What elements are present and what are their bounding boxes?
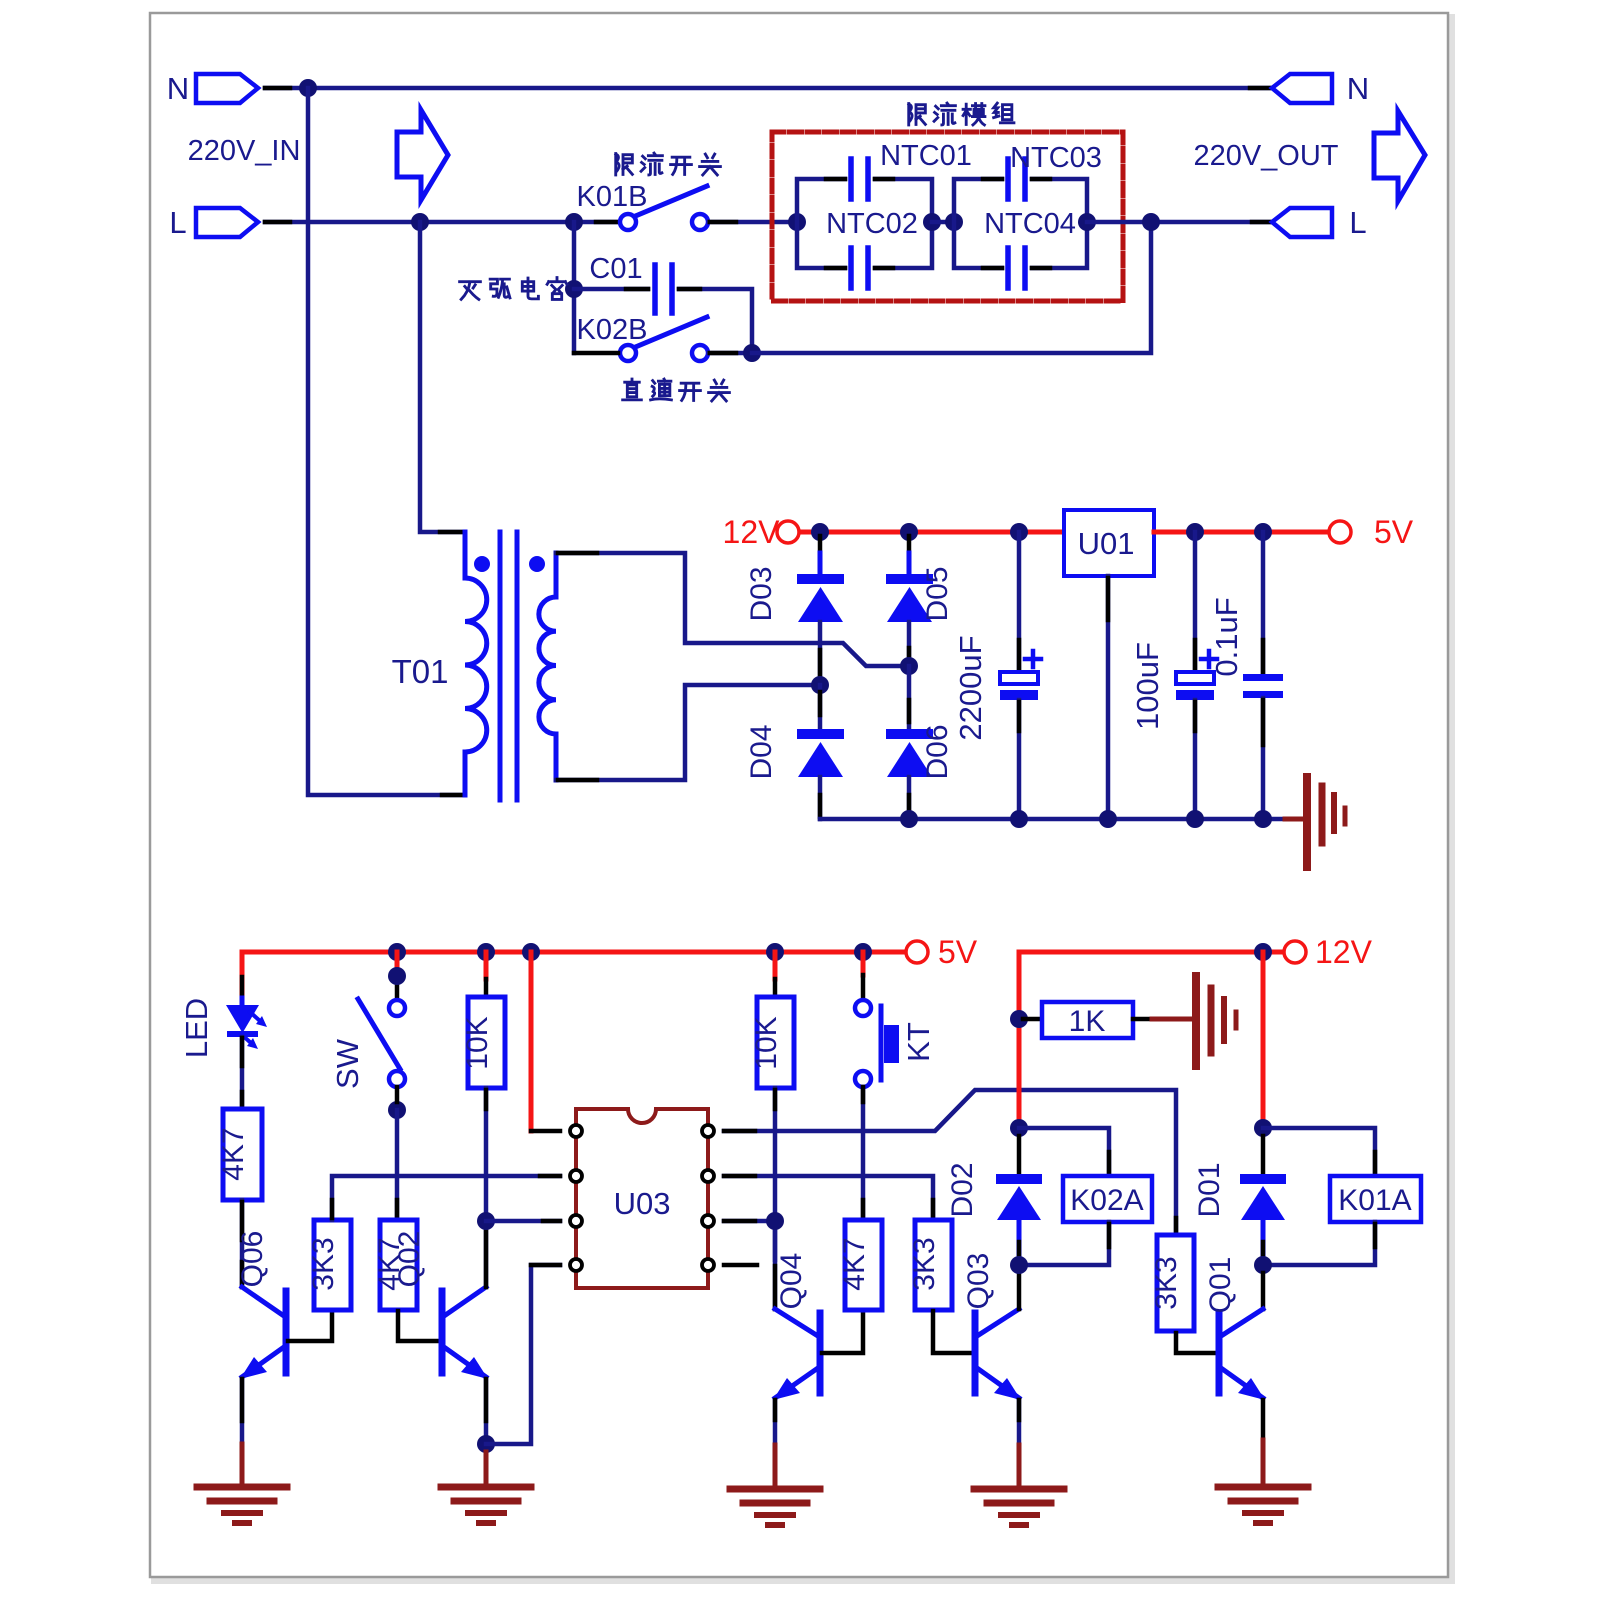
node 1K junction bbox=[1010, 1010, 1028, 1028]
wire C01 right lead to bypass net bbox=[679, 289, 752, 353]
ground symbol Q04 bbox=[730, 1489, 820, 1525]
svg-text:K02B: K02B bbox=[577, 314, 648, 346]
transformer T01 primary winding bbox=[465, 532, 487, 795]
wire pin L3 stub bbox=[486, 1219, 560, 1224]
label 限流开关 bbox=[616, 153, 721, 175]
svg-text:NTC02: NTC02 bbox=[826, 208, 918, 240]
capacitor C01 bbox=[655, 265, 672, 313]
diode D06 bbox=[886, 666, 933, 819]
pin U03 L2 bbox=[570, 1170, 582, 1182]
wire 10K(Q04) feed bbox=[773, 952, 778, 997]
wire KT feed bbox=[861, 952, 866, 1000]
transformer T01 core bbox=[500, 532, 517, 800]
wire K02B left lead bbox=[574, 351, 618, 356]
wire SW to 4K7 bbox=[395, 1087, 400, 1220]
svg-text:N: N bbox=[167, 71, 189, 106]
svg-text:12V: 12V bbox=[1315, 934, 1373, 970]
connector L out bbox=[1272, 208, 1332, 237]
wire group link bbox=[932, 220, 954, 225]
diode D02 bbox=[996, 1136, 1042, 1265]
ground symbol 1K bbox=[1196, 976, 1236, 1066]
resistor 4K7 (LED) bbox=[223, 1109, 262, 1200]
wire 5V rail middle bbox=[1154, 530, 1329, 535]
node gnd C100 bbox=[1186, 810, 1204, 828]
capacitor NTC04 bbox=[1008, 248, 1025, 288]
node NTC group1 left bbox=[788, 213, 806, 231]
wire Q01 emitter to ground bbox=[1261, 1400, 1266, 1487]
capacitor 100uF bbox=[1176, 532, 1217, 819]
diode D04 bbox=[797, 685, 844, 819]
svg-text:4K7: 4K7 bbox=[838, 1237, 871, 1290]
wire Q03 base bbox=[933, 1311, 973, 1353]
svg-text:1K: 1K bbox=[1069, 1005, 1106, 1038]
node U03 power rail junction bbox=[522, 943, 540, 961]
ground symbol middle bbox=[1285, 777, 1345, 867]
pin U03 R4 bbox=[702, 1259, 714, 1271]
wire emitter node to pin L4 bbox=[486, 1265, 560, 1444]
svg-text:10K: 10K bbox=[750, 1016, 783, 1069]
terminal 12V circle bbox=[777, 521, 799, 543]
node bridge mid left bbox=[811, 676, 829, 694]
wire 5V drop to U03 pin L1 bbox=[531, 952, 560, 1131]
wire 12V rail middle bbox=[799, 530, 1064, 535]
svg-text:2200uF: 2200uF bbox=[953, 635, 988, 740]
node L out junction bbox=[1142, 213, 1160, 231]
resistor 1K bbox=[1023, 1002, 1196, 1038]
svg-text:LED: LED bbox=[179, 998, 214, 1058]
label 限流模组 bbox=[909, 103, 1014, 125]
svg-text:3K3: 3K3 bbox=[1150, 1256, 1183, 1309]
wire 12V rail bottom bbox=[1019, 950, 1284, 955]
wire secondary bottom to bridge bbox=[556, 685, 820, 780]
svg-text:Q02: Q02 bbox=[393, 1231, 426, 1288]
wire SW feed bbox=[395, 952, 400, 999]
pin U03 L4 bbox=[570, 1259, 582, 1271]
svg-text:3K3: 3K3 bbox=[908, 1237, 941, 1290]
transformer T01 primary polarity dot bbox=[474, 556, 490, 572]
wire Q06 emitter to ground bbox=[240, 1379, 245, 1487]
capacitor 2200uF bbox=[1000, 532, 1041, 819]
node bridge mid right bbox=[900, 657, 918, 675]
node Q02 emitter junction bbox=[477, 1435, 495, 1453]
relay coil K02A bbox=[1019, 1128, 1152, 1265]
wire L to transformer primary top bbox=[420, 222, 464, 532]
node SW upper dot bbox=[388, 967, 406, 985]
IC U03 body bbox=[576, 1109, 708, 1288]
svg-text:4K7: 4K7 bbox=[217, 1127, 250, 1180]
svg-text:12V: 12V bbox=[723, 514, 781, 550]
wire pin R4 stub bbox=[724, 1263, 757, 1268]
svg-text:T01: T01 bbox=[392, 653, 449, 690]
capacitor 0.1uF bbox=[1243, 532, 1283, 819]
node SW lower dot bbox=[388, 1101, 406, 1119]
svg-text:L: L bbox=[169, 205, 186, 240]
wire 10K to Q02 collector bbox=[484, 1088, 489, 1287]
wire C01 left lead bbox=[574, 287, 648, 292]
svg-text:K02A: K02A bbox=[1070, 1184, 1143, 1217]
svg-text:0.1uF: 0.1uF bbox=[1209, 597, 1244, 676]
node D01 top junction bbox=[1254, 1119, 1272, 1137]
node 10K(Q04) rail junction bbox=[766, 943, 784, 961]
transistor Q01 bbox=[1219, 1309, 1265, 1400]
svg-text:U01: U01 bbox=[1078, 526, 1135, 561]
node rail C2200 bbox=[1010, 523, 1028, 541]
wire LED feed bbox=[240, 952, 245, 998]
wire Q03 collector bbox=[1017, 1273, 1022, 1309]
wire 3K3 top to U03 pin L2 bbox=[332, 1176, 560, 1220]
svg-text:U03: U03 bbox=[614, 1186, 671, 1221]
node D02 top junction bbox=[1010, 1119, 1028, 1137]
wire secondary top to bridge bbox=[556, 553, 909, 666]
wire Q03 emitter to ground bbox=[1017, 1400, 1022, 1489]
label 灭弧电容 bbox=[460, 278, 567, 300]
svg-text:C01: C01 bbox=[589, 253, 642, 285]
connector L in bbox=[196, 208, 258, 237]
flow arrow right bbox=[1374, 111, 1425, 201]
node 12V right rail junction bbox=[1254, 943, 1272, 961]
ground symbol Q01 bbox=[1218, 1487, 1308, 1523]
terminal 12V circle bottom bbox=[1284, 941, 1306, 963]
wire pin R3 stub bbox=[724, 1219, 775, 1224]
svg-text:220V_OUT: 220V_OUT bbox=[1193, 140, 1338, 172]
current limit module dashed box bbox=[772, 132, 1123, 301]
wire branch down from L bbox=[572, 222, 577, 353]
wire N bus bbox=[265, 86, 1274, 91]
pin U03 L1 bbox=[570, 1125, 582, 1137]
node rail C01u bbox=[1254, 523, 1272, 541]
capacitor NTC03 bbox=[1008, 159, 1025, 199]
node NTC group1 right bbox=[923, 213, 941, 231]
diode D05 bbox=[886, 536, 933, 666]
node Q02 collector / pin L3 bbox=[477, 1212, 495, 1230]
transistor Q04 bbox=[773, 1309, 820, 1400]
node 10K rail junction bbox=[477, 943, 495, 961]
svg-text:SW: SW bbox=[330, 1038, 365, 1089]
svg-text:3K3: 3K3 bbox=[307, 1237, 340, 1290]
pushbutton KT bbox=[855, 1000, 899, 1087]
wire Q04 base bbox=[822, 1311, 863, 1353]
svg-text:D03: D03 bbox=[745, 566, 778, 621]
node gnd U01 bbox=[1099, 810, 1117, 828]
LED diode bbox=[226, 998, 267, 1109]
svg-text:KT: KT bbox=[901, 1022, 936, 1062]
node D02 bottom junction bbox=[1010, 1256, 1028, 1274]
svg-text:L: L bbox=[1349, 205, 1366, 240]
wire Q04 emitter to ground bbox=[773, 1400, 778, 1489]
svg-text:D05: D05 bbox=[921, 566, 954, 621]
switch K01B bbox=[620, 186, 708, 230]
wire 12V drop to D01/K01A bbox=[1261, 952, 1266, 1128]
switch SW bbox=[358, 999, 405, 1087]
wire L out bbox=[1087, 220, 1274, 225]
wire L bus left bbox=[265, 220, 618, 225]
svg-text:NTC03: NTC03 bbox=[1010, 142, 1102, 174]
node gnd C2200 bbox=[1010, 810, 1028, 828]
wire 4K7 to Q06 collector bbox=[240, 1200, 245, 1287]
svg-text:220V_IN: 220V_IN bbox=[188, 135, 301, 167]
wire bypass to L out bbox=[752, 222, 1151, 353]
pin U03 R1 bbox=[702, 1125, 714, 1137]
label 直通开关 bbox=[623, 379, 730, 401]
resistor 10K (Q04) bbox=[757, 997, 794, 1088]
switch K02B bbox=[620, 317, 708, 361]
svg-text:D06: D06 bbox=[921, 724, 954, 779]
pin U03 R2 bbox=[702, 1170, 714, 1182]
svg-text:5V: 5V bbox=[938, 934, 978, 970]
svg-text:NTC04: NTC04 bbox=[984, 208, 1076, 240]
node Q04 collector / pin R3 bbox=[766, 1212, 784, 1230]
wire KT to 4K7(Q04) bbox=[861, 1087, 866, 1220]
svg-text:N: N bbox=[1347, 71, 1369, 106]
node SW rail junction bbox=[388, 943, 406, 961]
wire Q06 base bbox=[288, 1311, 332, 1341]
node rail D05 bbox=[900, 523, 918, 541]
wire Q02 emitter bbox=[484, 1379, 489, 1444]
resistor 3K3 (Q03) bbox=[915, 1220, 952, 1310]
wire Q01 base bbox=[1176, 1333, 1217, 1353]
resistor 3K3 (Q06) bbox=[314, 1220, 351, 1310]
capacitor NTC02 bbox=[851, 248, 868, 288]
diode D01 bbox=[1240, 1136, 1286, 1265]
node C01 branch junction bbox=[565, 280, 583, 298]
terminal 5V circle bottom bbox=[906, 941, 928, 963]
transistor Q02 bbox=[442, 1287, 488, 1379]
wire 10K to Q04 collector bbox=[773, 1088, 778, 1309]
flow arrow left bbox=[397, 110, 448, 200]
ground symbol Q03 bbox=[974, 1489, 1064, 1525]
node NTC group2 left bbox=[945, 213, 963, 231]
node gnd D06 bbox=[900, 810, 918, 828]
wire 10K feed bbox=[484, 952, 489, 997]
resistor 4K7 (Q02) bbox=[380, 1220, 417, 1310]
node gnd C01u bbox=[1254, 810, 1272, 828]
connector N out bbox=[1272, 74, 1332, 103]
svg-text:Q03: Q03 bbox=[962, 1253, 995, 1310]
svg-text:D04: D04 bbox=[745, 724, 778, 779]
node rail D03 bbox=[811, 523, 829, 541]
node K01B branch junction bbox=[565, 213, 583, 231]
resistor 4K7 (Q04) bbox=[845, 1220, 882, 1310]
transistor Q06 bbox=[240, 1287, 286, 1379]
ground symbol Q06 bbox=[197, 1487, 287, 1523]
svg-text:100uF: 100uF bbox=[1130, 642, 1165, 730]
node rail C100 bbox=[1186, 523, 1204, 541]
svg-text:D01: D01 bbox=[1193, 1162, 1226, 1217]
svg-text:5V: 5V bbox=[1374, 514, 1414, 550]
svg-text:Q04: Q04 bbox=[775, 1253, 808, 1310]
svg-text:Q01: Q01 bbox=[1204, 1257, 1237, 1314]
node KT rail junction bbox=[854, 943, 872, 961]
transformer T01 secondary polarity dot bbox=[529, 556, 545, 572]
transformer T01 secondary winding bbox=[539, 553, 556, 780]
svg-text:Q06: Q06 bbox=[236, 1231, 269, 1288]
wire pin R2 to Q03 3K3 bbox=[724, 1176, 933, 1220]
ground symbol Q02 bbox=[441, 1487, 531, 1523]
diode D03 bbox=[797, 536, 844, 685]
pin U03 R3 bbox=[702, 1215, 714, 1227]
wire K02B right lead bbox=[709, 351, 752, 356]
wire pin R1 to Q01 3K3 bbox=[724, 1090, 1176, 1235]
connector N in bbox=[196, 74, 258, 103]
capacitor NTC01 bbox=[851, 159, 868, 199]
wire Q02 base bbox=[398, 1311, 440, 1341]
wire ground bus middle bbox=[820, 817, 1285, 822]
node bypass junction bbox=[743, 344, 761, 362]
node NTC group2 right bbox=[1078, 213, 1096, 231]
resistor 3K3 (Q01) bbox=[1157, 1235, 1194, 1331]
relay coil K01A bbox=[1263, 1128, 1421, 1265]
svg-text:NTC01: NTC01 bbox=[880, 140, 972, 172]
pin U03 L3 bbox=[570, 1215, 582, 1227]
node N junction bbox=[299, 79, 317, 97]
node L junction to transformer bbox=[411, 213, 429, 231]
wire Q01 collector bbox=[1261, 1273, 1266, 1309]
resistor 10K (Q02) bbox=[468, 997, 505, 1088]
wire NTC group2 frame bbox=[954, 179, 1087, 268]
wire Q02 ground stub bbox=[484, 1452, 489, 1487]
terminal 5V circle middle bbox=[1329, 521, 1351, 543]
wire N to transformer primary bottom bbox=[308, 88, 465, 795]
wire K01B right to NTC module bbox=[709, 220, 797, 225]
wire U01 ground pin bbox=[1106, 576, 1111, 819]
regulator U01 bbox=[1064, 510, 1154, 576]
node D01 bottom junction bbox=[1254, 1256, 1272, 1274]
svg-text:D02: D02 bbox=[946, 1162, 979, 1217]
transistor Q03 bbox=[975, 1309, 1021, 1400]
wire 12V drop to D02/K02A bbox=[1017, 952, 1022, 1128]
wire NTC group1 frame bbox=[797, 179, 932, 268]
wire 5V rail bottom bbox=[242, 950, 906, 955]
svg-text:K01A: K01A bbox=[1338, 1184, 1411, 1217]
svg-text:10K: 10K bbox=[461, 1016, 494, 1069]
svg-text:K01B: K01B bbox=[577, 181, 648, 213]
